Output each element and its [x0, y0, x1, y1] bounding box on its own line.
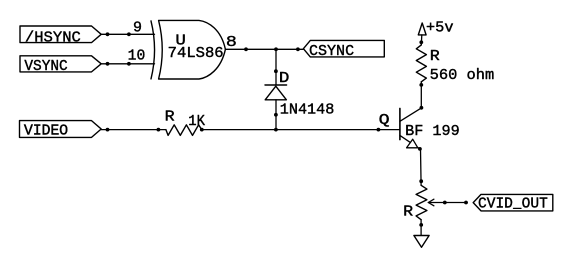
flag VSYNC — [20, 56, 101, 75]
flag VIDEO — [20, 121, 102, 140]
svg-text:CVID OUT: CVID OUT — [478, 196, 548, 213]
svg-text:R: R — [165, 109, 175, 126]
svg-text:1K: 1K — [188, 113, 205, 130]
junction dot on output wire — [244, 47, 248, 51]
junction dot at CVID_OUT flag — [464, 201, 468, 205]
svg-text:+5v: +5v — [426, 20, 454, 37]
junction dot on VSYNC wire — [106, 62, 110, 66]
junction dot at collector — [420, 106, 424, 110]
svg-text:/HSYNC: /HSYNC — [25, 29, 81, 46]
junction dot left of R — [157, 128, 161, 132]
svg-text:VIDEO: VIDEO — [24, 123, 68, 140]
flag CSYNC — [303, 40, 384, 60]
junction dot on wiper wire — [443, 201, 447, 205]
junction dot below 560 ohm — [419, 83, 423, 87]
svg-text:Q: Q — [379, 112, 390, 129]
junction dot on VIDEO wire — [106, 128, 110, 132]
wire 560 ohm to collector — [420, 82, 422, 108]
junction dot below diode — [274, 113, 278, 117]
junction dot at pin 9 wire — [127, 32, 131, 36]
junction dot above ground — [419, 223, 423, 227]
junction dot at pin 10 wire — [127, 62, 131, 66]
svg-text:BF 199: BF 199 — [405, 123, 460, 140]
svg-text:VSYNC: VSYNC — [24, 58, 67, 75]
svg-text:74LS86: 74LS86 — [168, 45, 224, 62]
wire potentiometer to ground — [420, 220, 422, 236]
wire +5v to resistor — [420, 35, 423, 45]
power +5v — [418, 20, 453, 37]
resistor R 560 ohm — [416, 45, 494, 84]
wire R to Q base — [202, 129, 400, 131]
wire /HSYNC to U1 pin 9 — [101, 33, 154, 35]
wire CSYNC node to diode cathode — [275, 49, 277, 85]
transistor Q BF 199 — [400, 108, 460, 149]
junction dot at emitter — [418, 147, 422, 151]
junction dot below +5v — [419, 40, 423, 44]
svg-text:D: D — [279, 70, 290, 87]
wire wiper to CVID_OUT — [428, 202, 467, 204]
junction dot on /HSYNC wire — [106, 32, 110, 36]
junction dot right of R — [200, 128, 204, 132]
junction dot at CSYNC flag — [296, 47, 300, 51]
svg-text:R: R — [403, 203, 413, 220]
ground — [414, 236, 429, 248]
wire U1 output to CSYNC — [225, 48, 303, 50]
flag /HSYNC — [20, 26, 101, 46]
svg-text:9: 9 — [133, 19, 142, 36]
wire VSYNC to U1 pin 10 — [101, 63, 154, 65]
junction dot above potentiometer — [419, 179, 423, 183]
wire VIDEO to resistor R — [101, 129, 166, 131]
svg-text:8: 8 — [226, 34, 237, 51]
svg-text:R: R — [430, 48, 440, 65]
diode D 1N4148 — [265, 70, 334, 118]
svg-text:560 ohm: 560 ohm — [430, 67, 495, 84]
junction dot node CSYNC — [274, 47, 278, 51]
flag CVID_OUT — [473, 194, 553, 212]
XOR gate U 74LS86 — [151, 20, 225, 79]
wire diode anode to video line — [275, 100, 277, 130]
junction dot above diode — [274, 69, 278, 73]
resistor R 1K — [165, 109, 205, 136]
svg-text:CSYNC: CSYNC — [309, 43, 354, 60]
svg-text:10: 10 — [128, 48, 146, 65]
potentiometer R — [403, 185, 434, 220]
junction dot diode to video line — [274, 128, 278, 132]
wire emitter to potentiometer — [420, 149, 423, 185]
svg-text:1N4148: 1N4148 — [280, 101, 335, 118]
junction dot at Q base wire — [377, 128, 381, 132]
